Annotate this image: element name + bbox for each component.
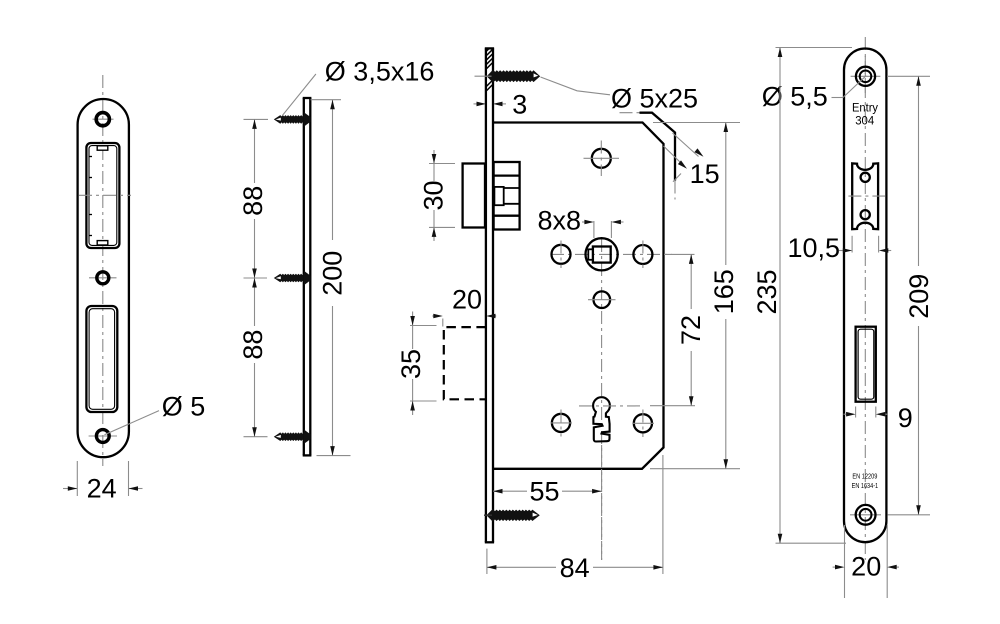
svg-text:Ø 5,5: Ø 5,5: [762, 82, 828, 112]
svg-text:35: 35: [396, 349, 426, 379]
deadbolt hidden outline: [444, 327, 486, 399]
faceplate front outline: [844, 49, 886, 543]
strike plate vertical centerline: [102, 75, 104, 466]
faceplate section hatching: [487, 49, 493, 90]
dimension 30 line: [432, 150, 437, 241]
faceplate bottom screw hole: [850, 505, 881, 525]
dimension 55: [493, 489, 602, 494]
top screw tip notch: [534, 73, 539, 77]
leader line screw label: [282, 74, 316, 116]
dimension 10,5 extension lines: [852, 236, 879, 253]
svg-text:235: 235: [752, 269, 782, 314]
strike plate latch cutout inner: [89, 146, 117, 246]
strike plate middle screw hole: [89, 272, 117, 284]
cylinder screw hole top: [584, 141, 620, 177]
keyhole centerline extension: [601, 445, 603, 560]
deadbolt opening front: [856, 327, 876, 402]
dimension 20 deadbolt: [432, 314, 496, 327]
strike plate deadbolt cutout outer: [86, 306, 117, 412]
leader line top screw: [541, 77, 611, 95]
screw bottom countersunk head: [304, 430, 311, 444]
dimension 165 line: [724, 123, 729, 469]
chamfer dimension 15 leaders: [664, 133, 704, 182]
screw top countersunk head: [304, 112, 311, 126]
screw middle tip notch: [276, 276, 281, 279]
svg-text:30: 30: [418, 180, 448, 210]
svg-text:72: 72: [676, 315, 706, 345]
svg-text:88: 88: [238, 330, 268, 360]
dimension 8x8 arrows: [582, 220, 624, 225]
follower side hole right: [633, 241, 652, 269]
keyhole side hole left: [551, 410, 572, 437]
bottom screw tip notch: [533, 513, 538, 517]
strike plate latch cutout outer: [86, 143, 119, 248]
svg-text:EN 1634-1: EN 1634-1: [852, 481, 879, 490]
dimension 84 extension lines: [487, 455, 663, 574]
svg-text:Entry: Entry: [852, 100, 878, 114]
svg-text:Ø 3,5x16: Ø 3,5x16: [325, 57, 435, 87]
svg-text:3: 3: [512, 90, 527, 120]
screw top tip notch: [276, 118, 281, 121]
bottom screw axis tick: [484, 514, 492, 516]
follower square 8x8: [586, 238, 618, 270]
svg-text:304: 304: [855, 114, 874, 128]
svg-text:209: 209: [904, 274, 934, 319]
leader line diameter 5,5: [832, 76, 867, 98]
screw bottom tip notch: [276, 435, 281, 438]
dimension 165 ticks: [650, 123, 740, 469]
latch opening front: [852, 163, 878, 229]
dimension 24 extension lines: [77, 461, 128, 496]
svg-text:Ø 5: Ø 5: [162, 392, 206, 422]
svg-text:88: 88: [238, 186, 268, 216]
dimension 35 line: [410, 312, 415, 416]
lock faceplate edge-on: [485, 48, 494, 542]
faceplate front centerline: [864, 37, 866, 560]
latch bolt body: [494, 162, 520, 230]
screw bottom side view: [274, 432, 304, 441]
bottom mounting screw: [486, 509, 539, 523]
keyhole horizontal centerline: [579, 405, 641, 407]
svg-text:24: 24: [87, 474, 117, 504]
dimension 20 arrows bottom: [833, 565, 899, 570]
follower side hole left: [552, 241, 571, 269]
strike plate outline: [78, 99, 129, 457]
dimension 10,5 arrows: [839, 248, 891, 253]
middle guide hole: [588, 291, 616, 308]
corner tab centerline: [620, 113, 676, 200]
dimension 209 ticks: [887, 76, 930, 515]
svg-text:Ø 5x25: Ø 5x25: [611, 84, 698, 114]
keyhole side hole right: [633, 410, 654, 438]
faceplate top screw hole: [851, 56, 881, 97]
dimension 235 line: [778, 48, 783, 544]
svg-text:200: 200: [318, 251, 348, 296]
strike plate deadbolt cutout inner: [89, 309, 115, 410]
dimension 200 extension lines: [311, 100, 351, 456]
svg-text:165: 165: [709, 269, 739, 314]
dimension 30 ticks: [429, 164, 455, 228]
screw top side view: [274, 115, 304, 124]
latch bolt head: [463, 164, 485, 228]
dimension 72 line: [689, 254, 694, 405]
svg-text:84: 84: [560, 553, 590, 583]
strike plate bottom screw hole: [89, 430, 117, 443]
keyhole: [593, 397, 610, 441]
top screw axis tick: [475, 75, 492, 77]
latch opening pin holes: [861, 173, 870, 220]
screw middle countersunk head: [304, 271, 311, 285]
strike plate cutout centerline: [79, 194, 131, 196]
svg-text:EN 12209: EN 12209: [852, 471, 877, 480]
dimension 9 arrows: [844, 412, 889, 417]
dimension 235 ticks: [776, 48, 853, 544]
lock case outline: [493, 123, 664, 469]
dimension 88 88 line: [252, 119, 257, 436]
main vertical centerline lock: [601, 239, 603, 560]
dimension 35 ticks: [410, 326, 437, 402]
dimension 3 arrows: [474, 102, 507, 107]
dimension 200 line: [330, 100, 335, 456]
svg-text:20: 20: [851, 552, 881, 582]
latch opening horizontal centerline: [848, 195, 886, 197]
dimension 20 extension lines: [845, 525, 888, 598]
svg-text:55: 55: [529, 477, 559, 507]
svg-text:15: 15: [690, 159, 720, 189]
svg-text:8x8: 8x8: [538, 206, 582, 236]
dimension 24 line and arrows: [63, 486, 143, 491]
svg-text:10,5: 10,5: [788, 233, 841, 263]
latch cutout bottom tab: [97, 241, 108, 245]
dimension 84 line: [487, 565, 663, 570]
dimension ticks at screws: [244, 119, 269, 436]
follower horizontal centerline: [551, 253, 672, 255]
dimension 9 extension lines: [856, 407, 876, 418]
top mounting screw: [487, 69, 541, 83]
latch cutout top tab: [97, 146, 108, 150]
svg-text:9: 9: [898, 403, 913, 433]
screw middle side view: [274, 274, 304, 283]
leader line to bottom hole: [105, 411, 160, 435]
faceplate side view plate: [303, 98, 312, 455]
dimension 8x8 extension lines: [594, 221, 612, 238]
strike plate top screw hole: [93, 113, 114, 126]
dimension 72 ticks: [650, 254, 695, 405]
svg-text:20: 20: [452, 285, 482, 315]
latch cutout edge marks: [89, 157, 92, 236]
corner tab: [640, 113, 676, 181]
dimension 209 line: [916, 76, 921, 515]
